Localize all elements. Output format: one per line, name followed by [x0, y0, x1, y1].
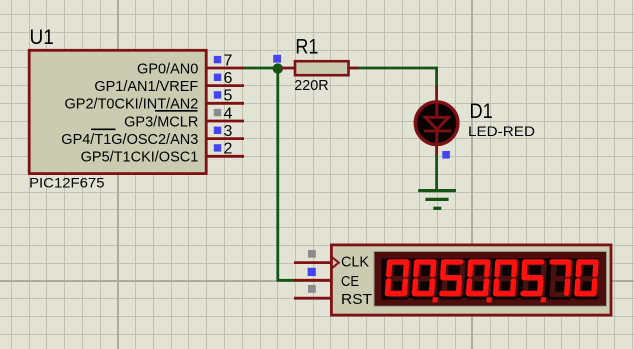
- IC U1 pin 3 (GP4/T1G/OSC2/AN3) stub: [207, 137, 245, 140]
- counter pin label CLK: [341, 254, 369, 271]
- IC U1 part value label PIC12F675: [29, 174, 105, 190]
- IC U1 pin 2 (GP5/T1CKI/OSC1) stub: [207, 155, 245, 158]
- LED D1 internal lead line lower: [435, 131, 438, 145]
- svg-text:GP0/AN0: GP0/AN0: [137, 61, 198, 77]
- counter pin label CE: [341, 273, 359, 290]
- resistor R1 left pin stub: [282, 67, 295, 70]
- svg-text:7: 7: [224, 52, 233, 69]
- LED D1 triangle (anode): [425, 117, 448, 129]
- IC U1 pin 5 terminal marker square: [214, 91, 221, 98]
- resistor R1 value label 220R: [294, 77, 328, 94]
- wire R1 to LED corner: [359, 68, 437, 87]
- IC U1 pin 5 number label: [224, 88, 233, 105]
- IC U1 pin 4 (GP3/MCLR) stub: [207, 120, 245, 123]
- counter RST terminal marker square: [308, 285, 316, 293]
- resistor R1 reference label: [295, 35, 318, 58]
- seven segment digit 1 showing 0: [384, 259, 415, 303]
- IC U1 pin 7 terminal marker square: [214, 56, 221, 63]
- counter pin CLK stub: [294, 261, 331, 264]
- svg-text:CE: CE: [341, 273, 359, 290]
- ground symbol: [418, 191, 456, 209]
- IC U1 pin 4 name label GP3/MCLR: [124, 114, 198, 130]
- seven segment digit 2 showing 0 with decimal point: [411, 259, 442, 303]
- svg-text:RST: RST: [341, 291, 372, 308]
- IC U1 reference label: [30, 26, 54, 49]
- IC U1 pin 3 number label: [224, 123, 233, 140]
- overline bar over T1G (pin 3 active-low): [91, 128, 116, 130]
- LED cathode terminal marker square: [442, 151, 450, 159]
- IC U1 pin 3 name label GP4/T1G/OSC2/AN3: [61, 132, 198, 148]
- counter pin label RST: [341, 291, 372, 308]
- svg-text:D1: D1: [470, 100, 493, 123]
- svg-text:3: 3: [224, 123, 233, 140]
- counter CE terminal marker square: [308, 268, 316, 276]
- svg-text:4: 4: [224, 105, 233, 122]
- IC U1 pin 7 number label: [224, 52, 233, 69]
- seven segment digit 8 showing 0: [574, 259, 605, 303]
- svg-text:CLK: CLK: [341, 254, 369, 271]
- svg-text:GP3/MCLR: GP3/MCLR: [124, 114, 198, 130]
- seven segment digit 4 showing 0 with decimal point: [465, 259, 496, 303]
- seven segment digit 6 showing 5 with decimal point: [519, 259, 550, 303]
- counter CLK clock caret: [332, 257, 339, 268]
- wire pin7 to junction node: [244, 67, 278, 70]
- IC U1 pin 4 number label: [224, 105, 233, 122]
- seven segment digit 5 showing 0: [492, 259, 523, 303]
- svg-text:LED-RED: LED-RED: [468, 123, 535, 139]
- grid major vertical line right: [471, 0, 473, 349]
- IC U1 pin 2 number label: [224, 141, 233, 158]
- grid major horizontal line: [0, 280, 634, 282]
- overline bar over MCLR (pin 4 active-low): [155, 110, 198, 112]
- IC U1 pin 7 (GP0/AN0) stub: [207, 67, 245, 70]
- IC U1 pin 6 number label: [224, 70, 233, 87]
- counter pin RST stub: [294, 297, 331, 300]
- IC U1 pin 2 name label GP5/T1CKI/OSC1: [81, 150, 199, 166]
- resistor R1 body: [295, 61, 349, 75]
- LED D1 internal lead line upper: [435, 103, 438, 118]
- LED D1 value label LED-RED: [468, 123, 535, 139]
- IC U1 pin 6 name label GP1/AN1/VREF: [94, 79, 198, 95]
- LED D1 anode pin stub: [435, 86, 438, 103]
- wire junction down to counter CE: [278, 69, 295, 281]
- LED D1 cathode bar: [424, 129, 451, 132]
- svg-text:5: 5: [224, 88, 233, 105]
- svg-text:2: 2: [224, 141, 233, 158]
- svg-text:220R: 220R: [294, 77, 328, 94]
- IC U1 pin 5 (GP2/T0CKI/INT/AN2) stub: [207, 102, 245, 105]
- IC U1 pin 6 (GP1/AN1/VREF) stub: [207, 84, 245, 87]
- IC U1 pin 4 terminal marker square: [214, 109, 221, 116]
- LED D1 cathode pin stub: [435, 143, 438, 156]
- junction node marker square: [273, 55, 281, 63]
- IC U1 pin 5 name label GP2/T0CKI/INT/AN2: [65, 97, 199, 113]
- IC U1 pin 7 name label GP0/AN0: [137, 61, 198, 77]
- junction node dot: [273, 63, 283, 73]
- resistor R1 right pin stub: [349, 67, 359, 70]
- seven segment display black face: [382, 258, 600, 299]
- IC U1 pin 3 terminal marker square: [214, 127, 221, 134]
- svg-text:GP1/AN1/VREF: GP1/AN1/VREF: [94, 79, 198, 95]
- seven segment digit 7 showing 7: [547, 259, 578, 303]
- counter CLK terminal marker square: [308, 250, 316, 258]
- svg-text:PIC12F675: PIC12F675: [29, 174, 105, 190]
- LED D1 reference label: [470, 100, 493, 123]
- seven segment display bezel: [374, 252, 607, 307]
- counter box body: [331, 245, 611, 315]
- svg-text:GP5/T1CKI/OSC1: GP5/T1CKI/OSC1: [81, 150, 199, 166]
- seven segment digit 3 showing 5: [438, 259, 469, 303]
- wire LED to ground: [435, 155, 438, 190]
- counter pin CE stub: [294, 279, 331, 282]
- op IC U1 PIC12F675 body: [29, 50, 206, 173]
- IC U1 pin 2 terminal marker square: [214, 144, 221, 151]
- svg-text:U1: U1: [30, 26, 54, 49]
- svg-text:GP4/T1G/OSC2/AN3: GP4/T1G/OSC2/AN3: [61, 132, 198, 148]
- svg-text:R1: R1: [295, 35, 318, 58]
- LED D1 circle body: [415, 102, 458, 145]
- grid major vertical line left: [117, 0, 119, 349]
- svg-text:6: 6: [224, 70, 233, 87]
- IC U1 pin 6 terminal marker square: [214, 74, 221, 81]
